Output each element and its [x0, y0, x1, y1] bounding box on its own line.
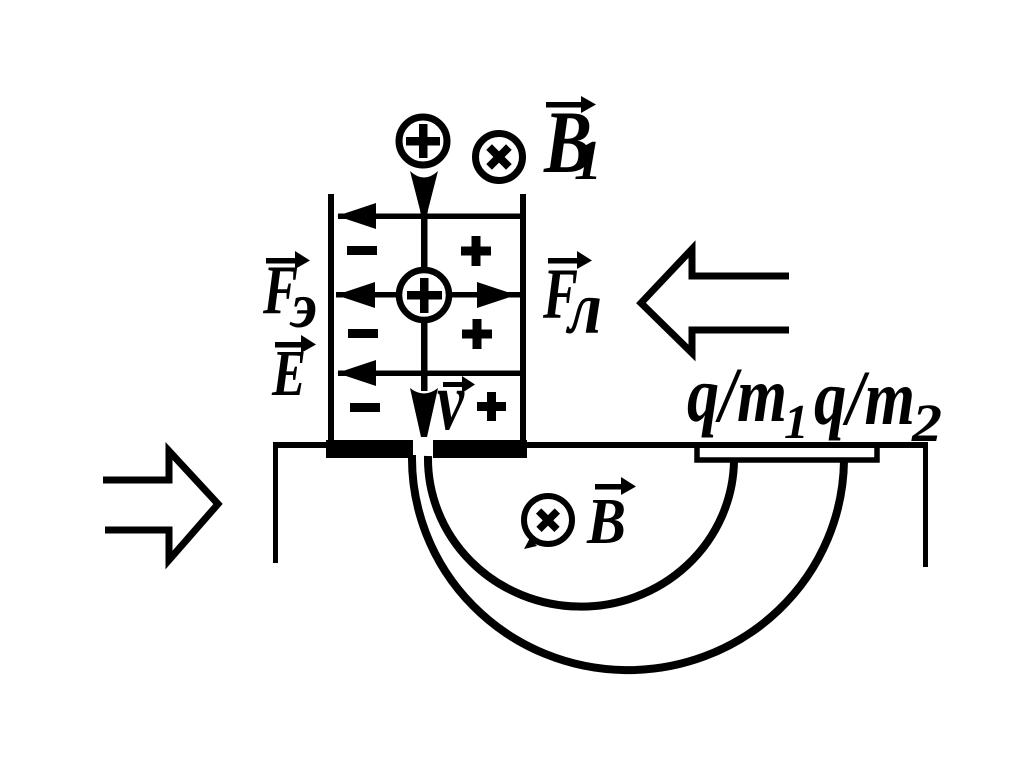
beam arrowhead at slit [410, 388, 438, 437]
plus sign row 1 [461, 236, 491, 266]
right wall [923, 442, 928, 567]
entry arrow into capacitor [410, 171, 438, 216]
ion inside capacitor [399, 270, 449, 320]
svg-text:v: v [437, 355, 465, 448]
svg-text:л: л [565, 268, 602, 350]
label B vector bottom [586, 477, 636, 558]
svg-text:1: 1 [784, 394, 809, 449]
svg-text:E: E [271, 337, 306, 410]
baseline right segment [524, 442, 928, 448]
minus sign row 3 [350, 403, 380, 412]
capacitor right plate [520, 194, 526, 441]
baseline left segment [273, 442, 330, 448]
big hollow arrow right-pointing [103, 451, 218, 560]
svg-text:1: 1 [574, 130, 602, 192]
minus sign row 1 [347, 246, 377, 255]
top positive ion circle [399, 117, 447, 165]
bottom electrode right bar [433, 440, 527, 458]
plus sign row 2 [462, 319, 492, 349]
minus sign row 2 [348, 329, 378, 338]
svg-text:2: 2 [911, 393, 942, 453]
trajectory semicircle 1 [428, 456, 734, 607]
field line row 3 [337, 360, 523, 386]
trajectory semicircle 2 [412, 455, 844, 670]
svg-text:э: э [289, 270, 317, 341]
label F_e vector [262, 251, 317, 341]
label E vector [271, 335, 316, 410]
label B1 vector [543, 94, 602, 192]
field B1 into-page symbol [476, 134, 523, 181]
collector tray [697, 446, 877, 460]
field line row 1 [337, 203, 523, 229]
vertical beam line upper [421, 219, 428, 269]
label F_l vector [542, 251, 602, 350]
bottom electrode left bar [326, 440, 413, 458]
label v vector [437, 355, 475, 448]
left wall [273, 442, 278, 563]
field line row 2 [336, 282, 520, 308]
field B into-page symbol bottom [524, 496, 572, 549]
label q/m2 [814, 354, 942, 453]
capacitor left plate [328, 194, 334, 441]
vertical beam line lower [421, 321, 428, 391]
svg-text:q/m: q/m [814, 354, 915, 441]
svg-text:q/m: q/m [687, 351, 787, 438]
plus sign row 3 [477, 392, 506, 421]
big hollow arrow left-pointing [641, 249, 789, 353]
svg-text:B: B [586, 485, 626, 558]
label q/m1 [687, 351, 809, 449]
